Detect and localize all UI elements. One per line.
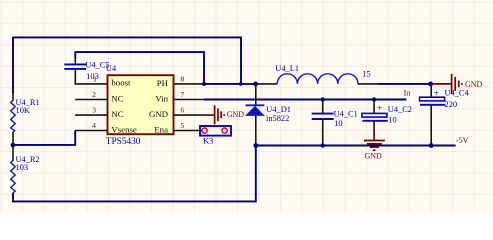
svg-text:Vin: Vin — [155, 94, 168, 104]
diode D1 cathode bar — [246, 104, 265, 106]
svg-text:GND: GND — [365, 152, 383, 161]
capacitor C5 plates — [64, 63, 86, 65]
svg-text:10: 10 — [388, 115, 396, 124]
op-amp U4 TPS5430 body — [108, 75, 174, 134]
capacitor C4 plate bottom — [420, 104, 445, 106]
svg-text:U4_C1: U4_C1 — [334, 110, 358, 119]
svg-text:K3: K3 — [203, 137, 213, 146]
svg-text:U4_D1: U4_D1 — [266, 105, 291, 114]
node rail dot at C1 — [321, 143, 325, 147]
svg-text:7: 7 — [180, 90, 184, 99]
svg-text:15: 15 — [362, 69, 370, 78]
svg-text:TPS5430: TPS5430 — [106, 137, 141, 147]
connector K3 pin circle left — [202, 128, 207, 133]
node PH junction dot at input branch — [239, 82, 243, 86]
svg-text:NC: NC — [111, 93, 123, 103]
wire Vin-top: input net upper loop — [13, 37, 241, 93]
connector K3 pin circle right — [222, 128, 227, 133]
capacitor C5 pin top — [74, 58, 76, 65]
pin 3 stub NC — [75, 114, 107, 116]
svg-text:NC: NC — [111, 109, 123, 119]
node dot at C4 branch — [428, 82, 433, 87]
wire L1 to GND port — [378, 83, 431, 85]
svg-text:10K: 10K — [16, 106, 30, 115]
svg-text:10: 10 — [334, 119, 342, 128]
svg-text:boost: boost — [111, 78, 131, 88]
svg-text:5: 5 — [180, 121, 184, 130]
resistor R1 pin top — [12, 92, 14, 101]
svg-text:8: 8 — [180, 74, 184, 83]
wire -5V rail — [256, 145, 456, 147]
svg-text:GND: GND — [227, 110, 245, 119]
svg-text:6: 6 — [180, 106, 184, 115]
svg-text:GND: GND — [149, 109, 168, 119]
ground symbol at chip GND pin 6 — [204, 105, 224, 124]
node In net dot at C1 — [321, 97, 325, 101]
pin 7 stub Vin — [174, 99, 204, 101]
svg-text:U4_C4: U4_C4 — [445, 88, 470, 97]
resistor R2 zigzag — [11, 161, 16, 193]
capacitor C4 pin top — [430, 84, 432, 97]
diode D1 pin top — [255, 84, 257, 105]
svg-text:1: 1 — [93, 74, 97, 83]
svg-text:3: 3 — [92, 106, 96, 115]
node divider junction dot — [11, 143, 16, 148]
wire Vin net (In) horizontal — [204, 99, 406, 101]
capacitor C1 plates — [312, 113, 334, 115]
resistor R2 pin bottom — [12, 193, 14, 202]
capacitor C2 pin bottom — [373, 121, 375, 131]
ground symbol below C2 — [364, 131, 385, 150]
capacitor C4 plate top (polarized box) — [420, 97, 445, 101]
node rail dot at C4 — [429, 143, 434, 148]
svg-text:PH: PH — [157, 78, 169, 88]
capacitor C1 pin top — [322, 100, 324, 114]
node PH junction dot at diode branch — [253, 82, 258, 87]
resistor R2 pin top — [12, 146, 14, 161]
pin 4 stub Vsense — [75, 130, 107, 132]
svg-text:U4_L1: U4_L1 — [275, 64, 299, 73]
capacitor C2 pin top — [373, 100, 375, 114]
resistor R1 pin bottom — [12, 132, 14, 145]
svg-text:U4: U4 — [106, 64, 117, 73]
wire feedback bottom loop — [13, 146, 256, 202]
pin 8 stub PH — [174, 83, 204, 85]
inductor L1 pin right — [358, 83, 378, 85]
node rail dot at diode — [253, 143, 258, 148]
capacitor C4 pin bottom — [430, 105, 432, 146]
svg-text:Vsense: Vsense — [111, 124, 137, 134]
capacitor C5 pin bottom + boost pin wire — [75, 69, 107, 84]
svg-text:2: 2 — [92, 90, 96, 99]
pin 5 stub Ena — [174, 130, 202, 132]
diode D1 triangle — [245, 106, 265, 116]
resistor R1 zigzag — [11, 100, 16, 132]
wire PH node horizontal — [203, 83, 256, 85]
diode D1 pin bottom — [255, 116, 257, 146]
capacitor C1 pin bottom — [322, 119, 324, 146]
svg-text:103: 103 — [16, 163, 29, 172]
capacitor C2 plate top (polarized box) — [362, 113, 387, 117]
svg-text:220: 220 — [445, 100, 458, 109]
svg-text:Ena: Ena — [154, 125, 168, 135]
connector K3 box — [200, 126, 231, 136]
pin 2 stub NC — [75, 99, 107, 101]
svg-text:-5V: -5V — [456, 136, 469, 145]
inductor L1 arcs — [277, 74, 358, 84]
wire Vsense feedback — [13, 131, 75, 145]
pin 6 stub GND — [174, 114, 204, 116]
node PH junction dot at boost cap branch — [202, 82, 206, 86]
svg-text:U4_C2: U4_C2 — [388, 105, 412, 114]
svg-text:in5822: in5822 — [266, 114, 289, 123]
node In net dot at C2 — [372, 97, 376, 101]
ground symbol top right — [431, 74, 462, 94]
wire boost loop: C5 top to PH node — [75, 52, 204, 84]
inductor L1 pin left — [256, 83, 278, 85]
svg-text:4: 4 — [92, 121, 96, 130]
svg-text:In: In — [404, 88, 411, 97]
capacitor C2 plate bottom — [362, 120, 387, 122]
